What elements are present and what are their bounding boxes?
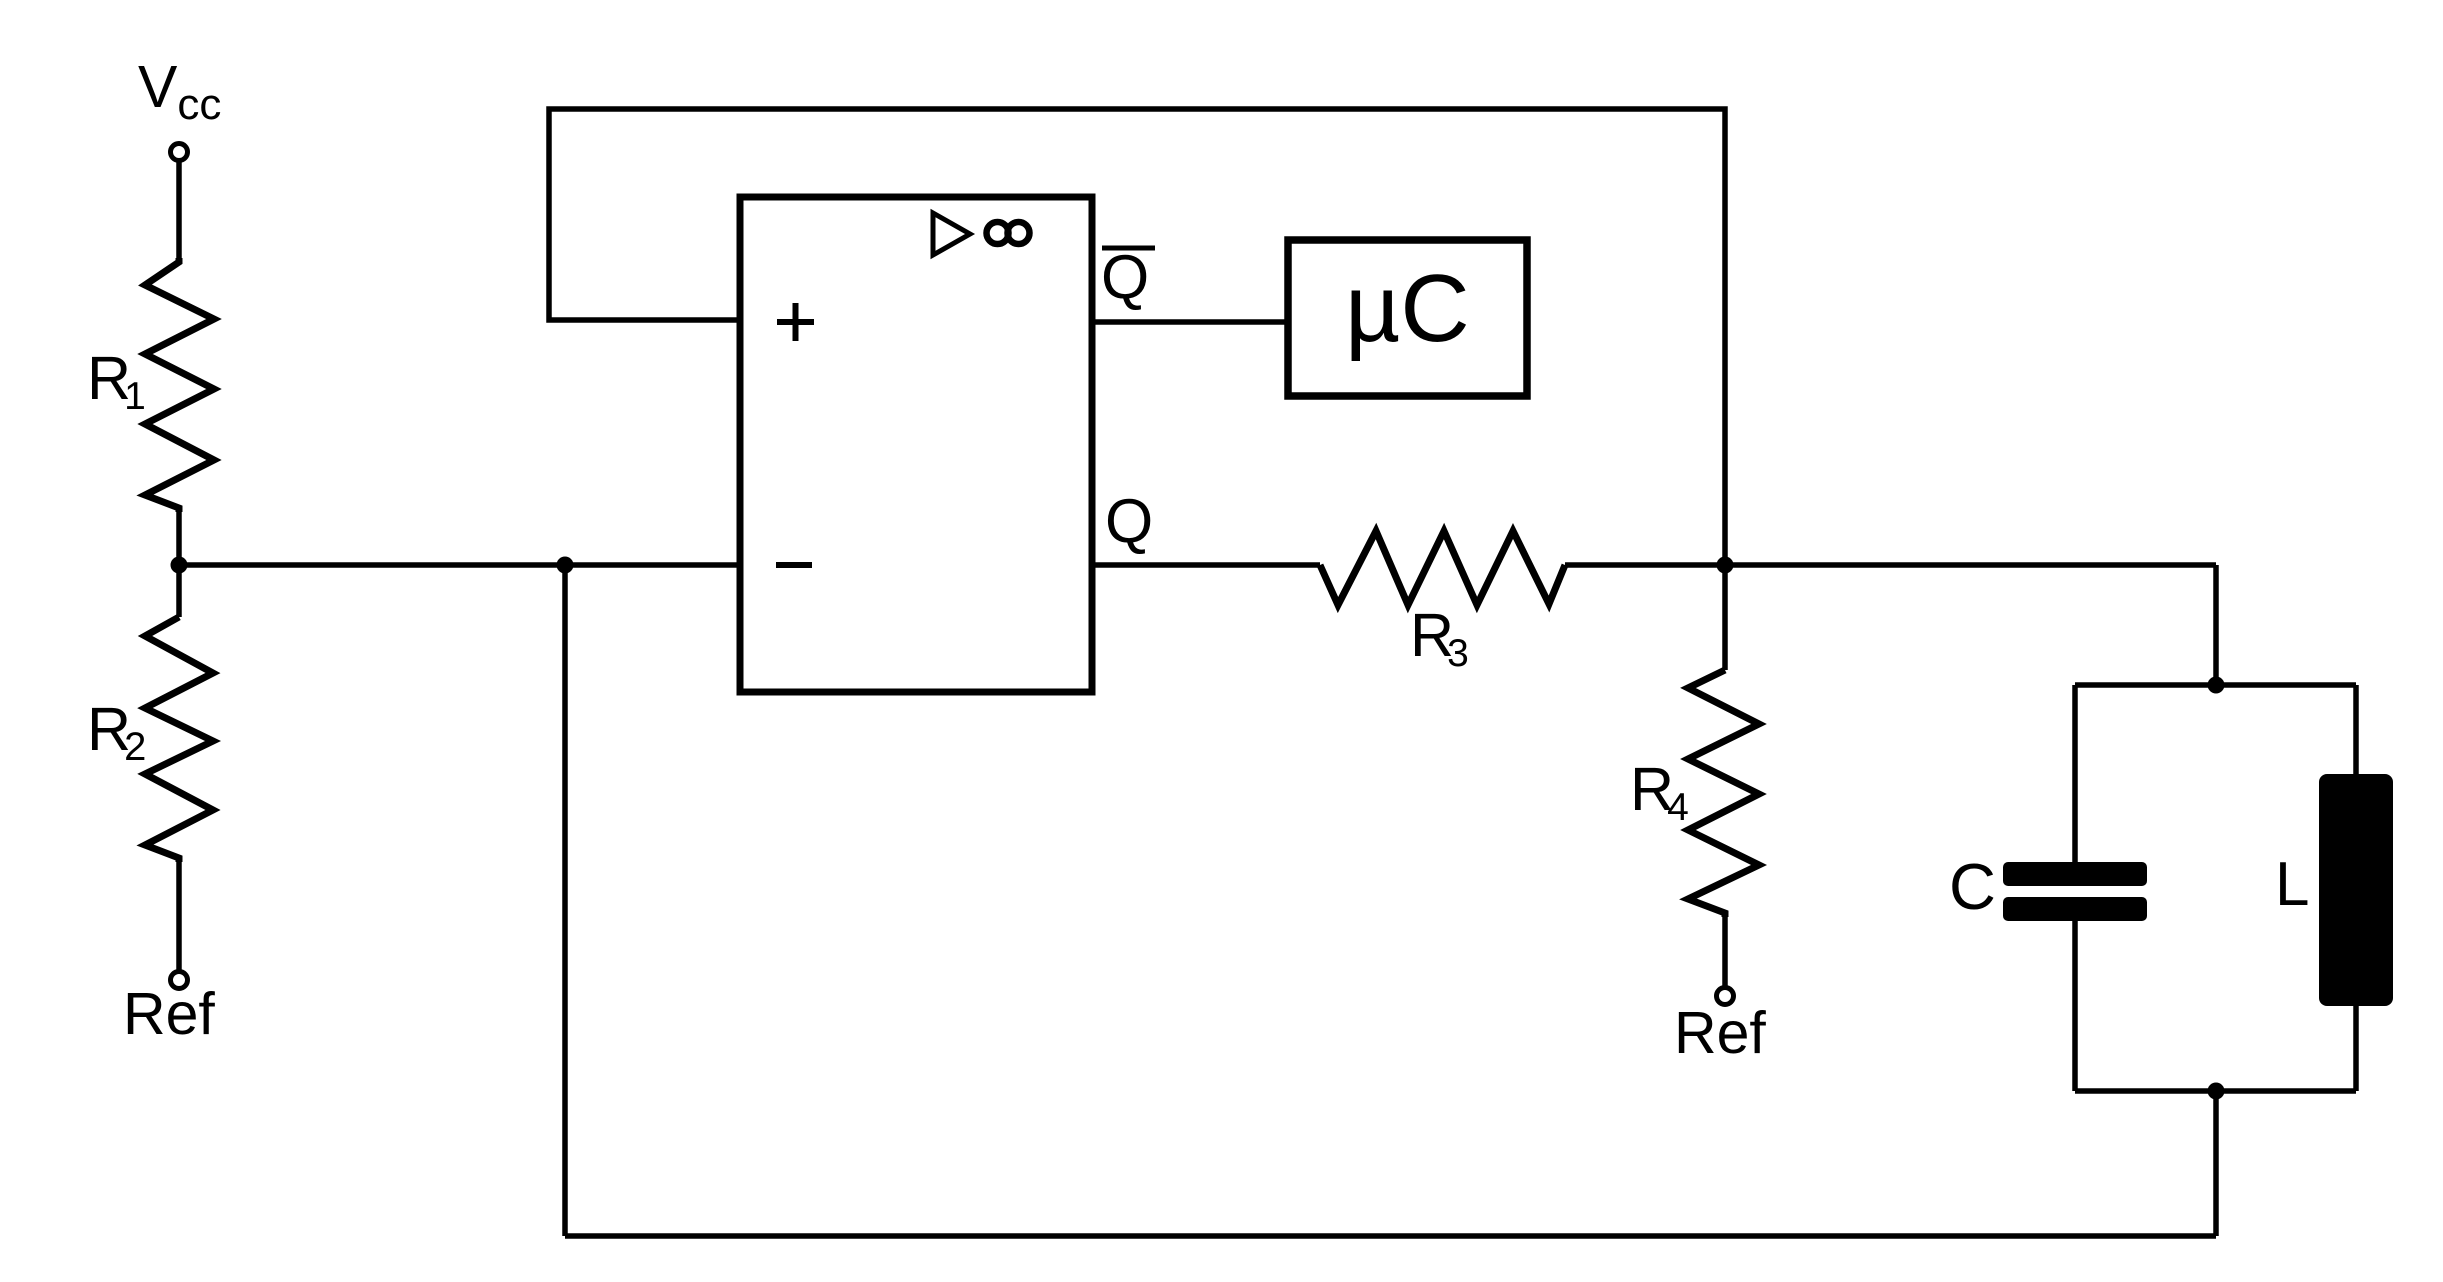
wire tank bottom to bottom return [2213,1091,2219,1236]
wire Q-bar output to microcontroller [1092,319,1288,325]
wire tank bottom [2075,1088,2356,1094]
resistor R2 [145,617,213,862]
svg-text:R4: R4 [1630,755,1689,829]
svg-text:Ref: Ref [123,981,215,1047]
comparator U1 box [740,197,1092,692]
svg-text:µC: µC [1345,255,1470,362]
capacitor C bottom lead [2072,921,2078,1091]
wire R1 to node A [176,512,182,565]
node E junction dot tank bottom [2208,1083,2225,1100]
wire node C to R4 [1722,565,1728,670]
resistor R3 [1320,531,1565,605]
inductor L top lead [2353,685,2359,774]
minus input symbol [776,562,812,568]
wire node A to R2 [176,565,182,617]
svg-text:R2: R2 [87,695,146,769]
wire R4 to Ref terminal right [1722,917,1728,987]
comparator triangle symbol [933,213,970,255]
wire Vcc terminal to R1 [176,161,182,258]
svg-text:R1: R1 [87,344,146,418]
Vcc terminal [171,144,188,161]
resistor R1 [145,258,214,512]
capacitor C plates [2003,862,2147,886]
svg-text:L: L [2275,850,2309,919]
svg-text:Ref: Ref [1674,1000,1766,1066]
wire R3 to node C and tank [1565,562,2216,568]
wire feedback loop plus input to node C [549,109,1725,565]
wire Q line down to tank top [2213,565,2219,685]
svg-text:Q: Q [1105,487,1153,556]
wire node A to inverting input [179,562,740,568]
Ref terminal right [1717,988,1734,1005]
inductor L bottom lead [2353,1006,2359,1091]
svg-text:R3: R3 [1410,601,1469,675]
node C junction dot [1717,557,1734,574]
wire bottom return [565,1233,2216,1239]
wire node B down left side [562,565,568,1236]
inductor L body [2319,774,2393,1006]
svg-text:Vcc: Vcc [138,54,221,129]
node B junction dot [557,557,574,574]
wire tank top [2075,682,2356,688]
svg-text:C: C [1949,850,1996,923]
infinity gain symbol [987,222,1009,244]
capacitor C top lead [2072,685,2078,862]
wire Q output to R3 [1092,562,1320,568]
plus input symbol [777,303,814,341]
node A junction dot [171,557,188,574]
resistor R4 [1688,670,1759,917]
wire R2 to Ref terminal [176,862,182,971]
node D junction dot tank top [2208,677,2225,694]
microcontroller uC box [1288,240,1527,396]
Ref terminal left [171,972,188,989]
svg-text:Q: Q [1101,243,1149,312]
